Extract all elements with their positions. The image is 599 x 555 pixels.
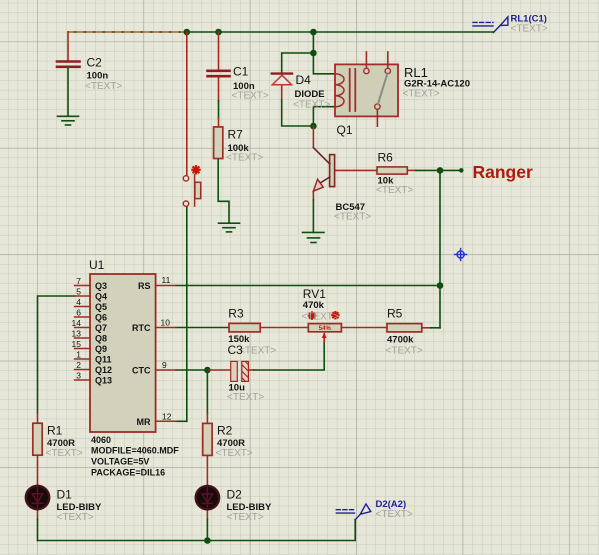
wire Q4 to R1 (38, 296, 75, 423)
svg-text:Q4: Q4 (95, 292, 107, 302)
svg-text:100n: 100n (87, 71, 109, 82)
resistor R1 (33, 423, 42, 455)
node junction Ranger (437, 167, 444, 174)
wire CTC node to C3 (207, 369, 231, 371)
svg-text:2: 2 (76, 360, 81, 370)
wire R5 to bus (422, 327, 440, 329)
svg-text:Q11: Q11 (95, 355, 112, 365)
resistor R2 (203, 423, 212, 455)
label RV1 (302, 287, 339, 323)
svg-text:<TEXT>: <TEXT> (85, 81, 122, 92)
wire MR pin12 to button vertical (176, 420, 187, 422)
node junction CTC (204, 367, 211, 374)
svg-text:<TEXT>: <TEXT> (376, 185, 413, 196)
wire relay node to Q1 collector (312, 126, 314, 148)
wire CTC pin9 to node (176, 369, 207, 371)
wire D4 anode down to node (282, 85, 314, 126)
svg-text:1: 1 (76, 350, 81, 360)
push button terminal bottom (183, 201, 188, 206)
label R5 (386, 307, 423, 357)
svg-text:<TEXT>: <TEXT> (227, 392, 264, 403)
svg-text:Q5: Q5 (95, 302, 107, 312)
svg-text:C1: C1 (233, 65, 249, 79)
label D2 (227, 488, 273, 524)
svg-text:<TEXT>: <TEXT> (511, 24, 548, 35)
svg-text:10: 10 (161, 318, 171, 328)
IC U1 body (90, 274, 156, 432)
relay RL1 body (335, 64, 398, 116)
node wire end dot Ranger (459, 168, 464, 173)
label C1 (232, 65, 269, 102)
svg-text:<TEXT>: <TEXT> (227, 512, 264, 523)
svg-text:<TEXT>: <TEXT> (46, 448, 83, 459)
svg-text:D2: D2 (227, 488, 243, 502)
wire C2 bottom to ground (67, 68, 69, 117)
svg-text:U1: U1 (89, 258, 105, 272)
wire top rail dashed segment (68, 31, 187, 33)
relay RL1 pin NO (385, 52, 390, 74)
label R2 (216, 424, 253, 460)
resistor R5 (387, 324, 422, 332)
capacitor C3 left plate (231, 361, 238, 381)
label D4 (293, 73, 330, 111)
label R3 (228, 307, 276, 357)
terminal flag D2(A2) (336, 504, 371, 520)
svg-text:13: 13 (72, 329, 82, 339)
svg-text:MODFILE=4060.MDF: MODFILE=4060.MDF (91, 446, 179, 456)
label BC547 (334, 202, 371, 223)
svg-text:PACKAGE=DIL16: PACKAGE=DIL16 (91, 468, 165, 478)
wire CTC node down to R2 (206, 370, 208, 423)
svg-text:5: 5 (76, 287, 81, 297)
svg-text:Q13: Q13 (95, 376, 112, 386)
wire R7 bottom to ground (218, 159, 229, 224)
wire C1 to R7 (218, 78, 220, 128)
LED D1 (26, 486, 49, 509)
svg-text:<TEXT>: <TEXT> (386, 346, 423, 357)
resistor R7 (214, 127, 223, 159)
svg-text:R5: R5 (387, 307, 403, 321)
label C3 (227, 343, 264, 403)
svg-text:<TEXT>: <TEXT> (302, 312, 339, 323)
resistor R6 (377, 167, 407, 174)
transistor Q1 base bar (330, 155, 335, 187)
svg-text:RS: RS (138, 281, 151, 291)
ground under C2 (58, 116, 79, 125)
svg-text:R6: R6 (378, 151, 394, 165)
relay RL1 pin NC (364, 52, 369, 74)
push button actuation star (192, 166, 199, 173)
wire R6 to Ranger node (407, 169, 461, 171)
svg-text:54%: 54% (319, 326, 332, 332)
label R7 (226, 128, 263, 164)
svg-text:14: 14 (72, 318, 82, 328)
label R1 (46, 424, 83, 460)
svg-text:MR: MR (137, 417, 151, 427)
wire R1 to D1 (37, 455, 39, 487)
label D2(A2) (376, 499, 413, 520)
origin marker crosshair (455, 249, 467, 261)
label R6 (376, 151, 413, 197)
svg-text:470k: 470k (303, 300, 325, 311)
wire bottom rail (38, 520, 356, 541)
wire D2 to bottom rail (206, 508, 208, 541)
wire button bottom to MR row (186, 206, 188, 421)
capacitor C2 (57, 62, 80, 67)
svg-text:<TEXT>: <TEXT> (239, 346, 276, 357)
wire D4 cathode up to node (282, 53, 314, 73)
push button actuator (195, 175, 201, 206)
wire C1 top (218, 32, 220, 70)
svg-text:<TEXT>: <TEXT> (293, 100, 330, 111)
capacitor C1 (208, 71, 230, 76)
U1 pin names left (95, 281, 112, 386)
RV1 drag star left (309, 312, 315, 318)
wire coil top feed (313, 53, 335, 74)
ground under Q1 (303, 232, 325, 242)
svg-text:RV1: RV1 (303, 287, 326, 301)
node junction coil bottom (310, 123, 317, 130)
svg-text:C2: C2 (87, 56, 103, 70)
terminal flag RL1(C1) (473, 17, 508, 33)
resistor R3 (229, 323, 260, 332)
RV1 drag star right (332, 312, 338, 318)
wire C2 top (67, 32, 69, 61)
LED D2 (196, 486, 219, 509)
relay RL1 coil (335, 74, 344, 107)
wire R3 to RV1 (260, 327, 308, 329)
svg-text:C3: C3 (228, 343, 244, 357)
U1 pin names right (132, 281, 151, 427)
node junction top rail at button (184, 29, 191, 36)
node junction RS wire (437, 282, 444, 289)
svg-text:<TEXT>: <TEXT> (334, 212, 371, 223)
svg-text:Q8: Q8 (95, 334, 107, 344)
svg-text:<TEXT>: <TEXT> (57, 512, 94, 523)
svg-text:Q1: Q1 (337, 123, 353, 137)
node junction top rail at relay branch (310, 29, 317, 36)
svg-text:7: 7 (76, 276, 81, 286)
wire coil bottom feed (313, 107, 335, 126)
wire C3 right to RV1 wiper (248, 334, 324, 370)
U1 pin numbers right (161, 275, 172, 421)
relay RL1 pin COM (375, 104, 380, 126)
svg-text:<TEXT>: <TEXT> (232, 91, 269, 102)
wire relay branch from rail to coil node (312, 32, 314, 53)
potentiometer RV1 body (308, 324, 341, 332)
svg-text:4: 4 (76, 297, 81, 307)
wire button vertical from rail (186, 32, 188, 176)
svg-text:R1: R1 (47, 424, 63, 438)
wire RS pin11 to bus (176, 285, 440, 287)
svg-text:VOLTAGE=5V: VOLTAGE=5V (91, 457, 149, 467)
svg-text:Q9: Q9 (95, 344, 107, 354)
node junction top rail at C1 (215, 29, 222, 36)
svg-text:CTC: CTC (132, 366, 151, 376)
U1 model text (91, 435, 179, 478)
svg-text:11: 11 (162, 275, 171, 285)
potentiometer RV1 wiper arrow (322, 332, 327, 338)
svg-text:D4: D4 (296, 73, 312, 87)
svg-text:4700k: 4700k (387, 335, 414, 346)
wire right vertical bus x440 (439, 170, 441, 327)
svg-text:3: 3 (76, 371, 81, 381)
wire D1 to bottom rail (37, 508, 39, 541)
node junction coil top (310, 50, 317, 57)
svg-text:9: 9 (162, 360, 167, 370)
svg-text:Q7: Q7 (95, 323, 107, 333)
node junction bottom rail at D2 (204, 537, 211, 544)
svg-text:RTC: RTC (132, 323, 151, 333)
svg-text:6: 6 (76, 308, 81, 318)
svg-text:<TEXT>: <TEXT> (376, 509, 413, 520)
label RL1(C1) (511, 14, 548, 35)
svg-text:Ranger: Ranger (473, 162, 533, 182)
wire top rail solid (187, 31, 494, 33)
wire RV1 to R5 (341, 327, 387, 329)
svg-text:R2: R2 (217, 424, 233, 438)
svg-text:<TEXT>: <TEXT> (216, 448, 253, 459)
svg-text:<TEXT>: <TEXT> (226, 153, 263, 164)
svg-text:15: 15 (72, 339, 82, 349)
svg-text:Q3: Q3 (95, 281, 107, 291)
transistor Q1 collector lead (313, 148, 329, 164)
diode D4 (272, 74, 292, 85)
capacitor C3 right plate hatched (242, 361, 249, 381)
svg-text:<TEXT>: <TEXT> (403, 89, 440, 100)
push button terminal top (183, 176, 188, 181)
wire RTC pin10 to R3 (176, 327, 229, 329)
transistor Q1 emitter lead with arrow (313, 177, 330, 191)
svg-text:Q6: Q6 (95, 313, 107, 323)
svg-text:DIODE: DIODE (295, 89, 325, 100)
U1 pin numbers left (72, 276, 82, 381)
U1 right pin stubs RS RTC CTC MR (156, 286, 176, 422)
svg-text:D1: D1 (57, 488, 73, 502)
svg-text:R3: R3 (228, 307, 244, 321)
svg-text:4060: 4060 (91, 435, 111, 445)
relay RL1 core bars (350, 69, 356, 111)
U1 left pin stubs Q3-Q13 (75, 286, 90, 381)
label C2 (85, 56, 122, 93)
wire Q1 base to R6 (335, 169, 377, 171)
svg-text:R7: R7 (228, 128, 244, 142)
relay RL1 switch arm (378, 74, 388, 105)
svg-text:12: 12 (162, 411, 172, 421)
label RL1 (403, 65, 471, 100)
svg-text:Q12: Q12 (95, 365, 112, 375)
ground under R7 (219, 223, 240, 232)
label D1 (57, 488, 103, 524)
wire R2 to D2 (206, 455, 208, 487)
wire Q1 emitter to ground (312, 193, 314, 233)
